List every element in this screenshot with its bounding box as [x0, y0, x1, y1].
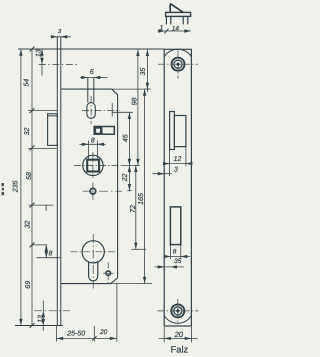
svg-text:35: 35 [140, 68, 147, 76]
svg-text:32: 32 [25, 221, 32, 229]
svg-text:54: 54 [24, 79, 31, 87]
svg-text:165: 165 [138, 193, 145, 205]
svg-text:8: 8 [173, 249, 177, 256]
svg-text:235: 235 [13, 180, 20, 193]
svg-text:35: 35 [174, 258, 182, 265]
svg-text:20: 20 [174, 330, 184, 339]
svg-text:25-50: 25-50 [66, 331, 85, 338]
svg-text:8: 8 [48, 251, 52, 258]
svg-text:58: 58 [26, 172, 33, 180]
svg-text:1: 1 [160, 25, 164, 32]
svg-text:13: 13 [36, 49, 43, 57]
svg-text:72: 72 [130, 205, 137, 213]
svg-text:69: 69 [25, 281, 32, 289]
svg-text:13: 13 [38, 315, 45, 323]
svg-text:98: 98 [132, 98, 139, 106]
svg-text:22: 22 [122, 174, 129, 183]
svg-text:45: 45 [122, 134, 129, 142]
svg-text:14: 14 [172, 25, 180, 32]
svg-text:3: 3 [174, 167, 178, 174]
svg-text:20: 20 [99, 329, 108, 336]
svg-text:Falz: Falz [171, 345, 189, 355]
svg-text:32: 32 [24, 128, 31, 136]
svg-text:8: 8 [91, 137, 95, 144]
svg-text:6: 6 [90, 69, 94, 76]
svg-text:12: 12 [174, 156, 182, 163]
